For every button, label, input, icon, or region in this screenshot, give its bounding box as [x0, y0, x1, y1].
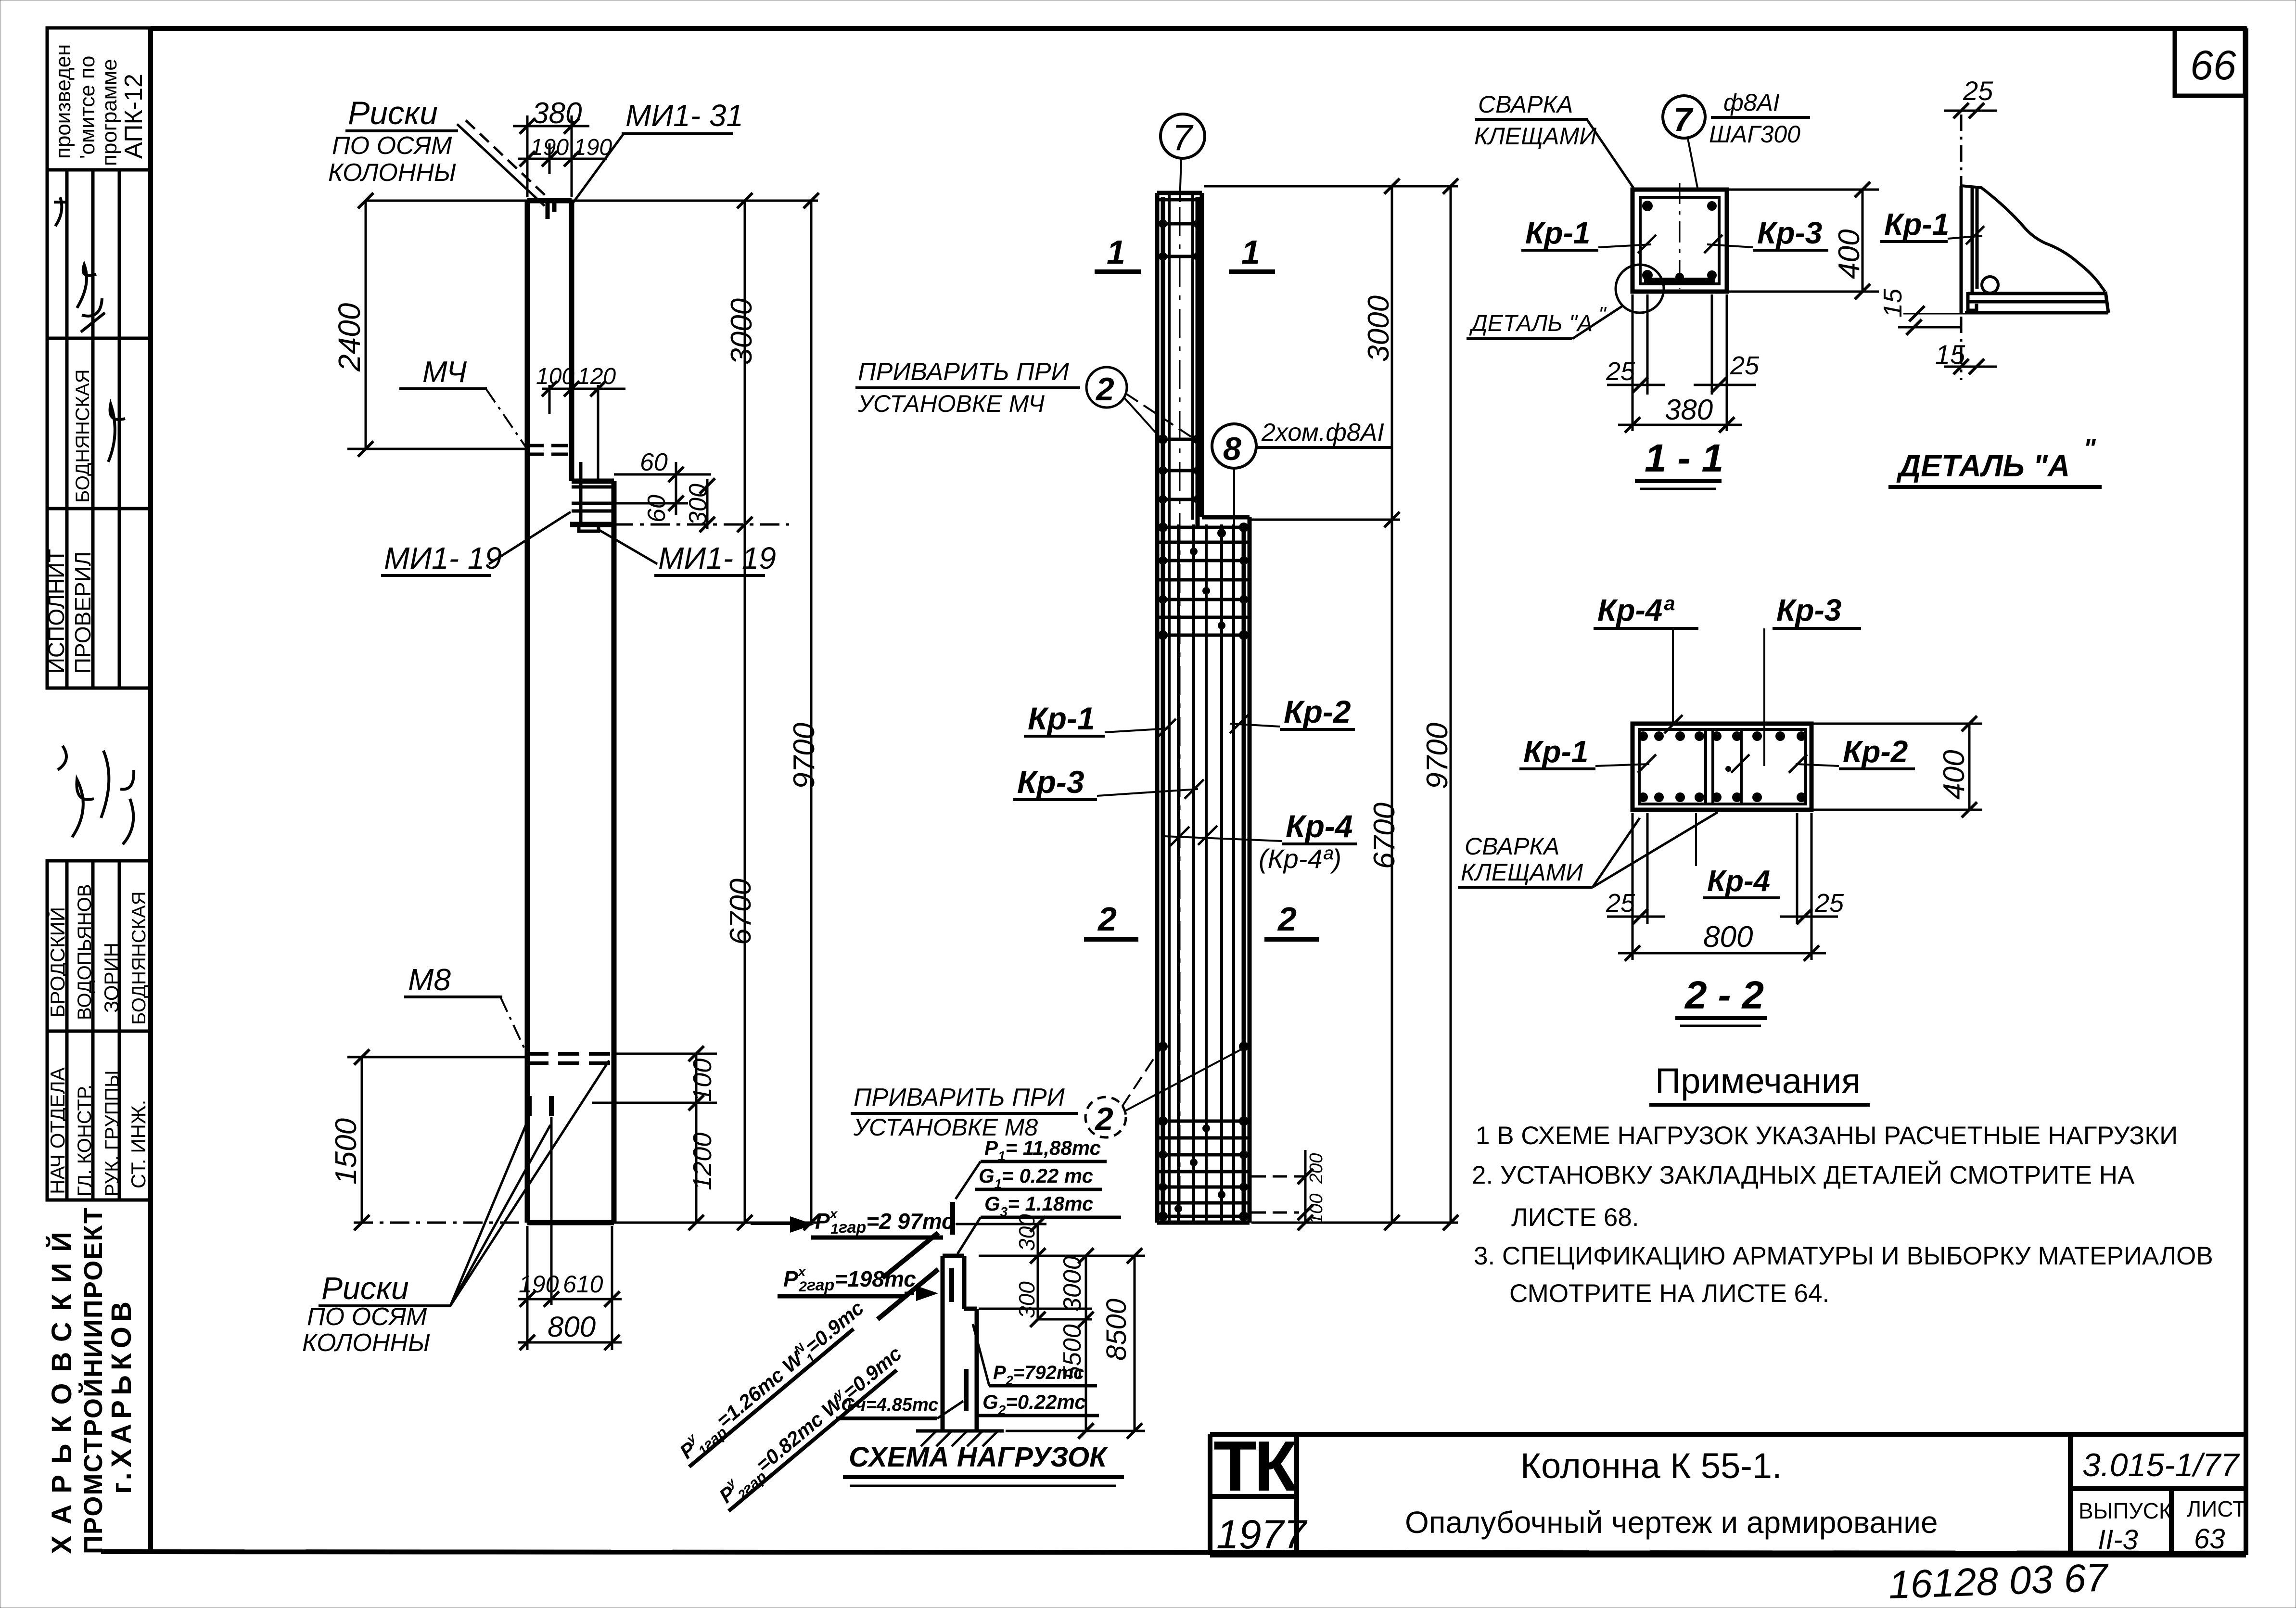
- svg-text:Примечания: Примечания: [1655, 1061, 1861, 1101]
- svg-text:1 - 1: 1 - 1: [1645, 436, 1723, 480]
- narrow cage stirrups (top group): [1157, 200, 1202, 499]
- section body: outer concrete square: [1633, 190, 1727, 292]
- svg-text:400: 400: [1938, 750, 1971, 800]
- svg-text:15: 15: [1878, 288, 1907, 318]
- P1gar horizontal force arrow: [751, 1222, 793, 1225]
- svg-text:25: 25: [1814, 889, 1844, 918]
- svg-text:РУК. ГРУППЫ: РУК. ГРУППЫ: [102, 1070, 123, 1197]
- bottom riska marks: [529, 1096, 551, 1116]
- dims of load scheme: [956, 1224, 1145, 1431]
- right dims 3000 / 6700 / 9700: [1204, 186, 1458, 1223]
- svg-text:1500: 1500: [330, 1118, 363, 1185]
- section mark 1-1: [1095, 269, 1141, 274]
- svg-text:Кр-4: Кр-4: [1707, 865, 1770, 898]
- svg-text:АПК-12: АПК-12: [120, 74, 148, 159]
- dim 400 right: [1813, 724, 1982, 810]
- svg-text:6700: 6700: [1368, 803, 1401, 869]
- svg-text:3.015-1/77: 3.015-1/77: [2082, 1447, 2240, 1483]
- svg-text:ДЕТАЛЬ "А: ДЕТАЛЬ "А: [1469, 311, 1593, 336]
- bottom dims 190/610/800: [518, 1117, 622, 1350]
- diagonal label 1: [671, 1294, 872, 1470]
- svg-text:НАЧ ОТДЕЛА: НАЧ ОТДЕЛА: [46, 1067, 69, 1194]
- sheet number box 66: [2175, 28, 2245, 96]
- svg-text:ПРИВАРИТЬ ПРИ: ПРИВАРИТЬ ПРИ: [858, 358, 1070, 386]
- svg-text:7: 7: [1673, 101, 1694, 138]
- embedded plate: [1965, 292, 2108, 313]
- svg-text:г.ХАРЬКОВ: г.ХАРЬКОВ: [106, 1302, 137, 1494]
- svg-text:ф8АІ: ф8АІ: [1723, 89, 1780, 116]
- svg-text:Риски: Риски: [348, 95, 438, 131]
- svg-text:ПРОМСТРОЙНИИПРОЕКТ: ПРОМСТРОЙНИИПРОЕКТ: [78, 1208, 108, 1554]
- svg-text:Кр-1: Кр-1: [1525, 216, 1590, 250]
- rebar dots: [1642, 201, 1717, 281]
- svg-text:3000: 3000: [725, 298, 758, 365]
- dims 25 / 380 below: [1607, 294, 1756, 431]
- svg-text:G1= 0.22 тс: G1= 0.22 тс: [979, 1164, 1093, 1191]
- svg-text:8: 8: [1223, 431, 1241, 467]
- top centre riska marks: [548, 201, 554, 219]
- svg-text:ЛИСТЕ 68.: ЛИСТЕ 68.: [1511, 1203, 1639, 1232]
- svg-text:25: 25: [1730, 351, 1760, 380]
- dim 3000 / 6700 / 9700: [572, 201, 818, 1223]
- svg-text:Кр-3: Кр-3: [1776, 593, 1841, 627]
- svg-text:ИСПОЛНИТ: ИСПОЛНИТ: [44, 549, 69, 674]
- svg-text:Кр-3: Кр-3: [1757, 216, 1822, 250]
- narrow cage outline & bars: [1157, 193, 1202, 1223]
- svg-text:СМОТРИТЕ НА ЛИСТЕ 64.: СМОТРИТЕ НА ЛИСТЕ 64.: [1509, 1279, 1829, 1308]
- svg-text:800: 800: [1703, 920, 1753, 954]
- svg-text:ДЕТАЛЬ "А: ДЕТАЛЬ "А: [1896, 448, 2070, 483]
- dim 100 / 1200 right of column foot: [592, 1054, 717, 1223]
- svg-text:300: 300: [1014, 1281, 1039, 1318]
- dim 1500: [347, 1057, 526, 1223]
- svg-text:6700: 6700: [724, 879, 757, 945]
- left margin stamp strip: [47, 28, 151, 1200]
- svg-text:66: 66: [2190, 42, 2236, 89]
- svg-text:ХАРЬКОВСКИЙ: ХАРЬКОВСКИЙ: [46, 1232, 77, 1554]
- MCh embedded plate (dashed): [527, 446, 575, 454]
- svg-text:3000: 3000: [1362, 295, 1395, 362]
- svg-text:300: 300: [1014, 1214, 1039, 1251]
- centre axes: [1679, 183, 1681, 289]
- detail A callout circle: [1616, 265, 1664, 313]
- svg-text:3000: 3000: [1059, 1256, 1086, 1312]
- svg-text:Риски: Риски: [321, 1270, 409, 1306]
- svg-text:ШАГ300: ШАГ300: [1709, 121, 1800, 148]
- callout 7: f8AI shag300: [1663, 96, 1705, 138]
- svg-text:7: 7: [1172, 117, 1194, 158]
- signature squiggles: [54, 197, 134, 844]
- organization name (rotated): [46, 1208, 137, 1554]
- top lap-splice mesh: [1157, 527, 1250, 635]
- svg-text:2: 2: [1095, 371, 1114, 408]
- M8 embedded plate (dashed): [527, 1054, 614, 1063]
- dim 2400 left: [347, 201, 527, 449]
- svg-text:120: 120: [577, 364, 616, 389]
- svg-text:200: 200: [1306, 1153, 1327, 1184]
- stirrup: [1640, 197, 1719, 284]
- svg-text:Кр-2: Кр-2: [1843, 734, 1908, 769]
- axis mark: circled 7: [1161, 114, 1205, 158]
- svg-text:Кр-1: Кр-1: [1523, 734, 1588, 769]
- svg-text:G2=0.22тс: G2=0.22тс: [982, 1391, 1086, 1417]
- svg-text:400: 400: [1833, 230, 1866, 279]
- svg-text:ЛИСТ: ЛИСТ: [2187, 1496, 2246, 1521]
- svg-text:2 - 2: 2 - 2: [1684, 973, 1764, 1017]
- widening step: [1202, 515, 1250, 520]
- svg-text:380: 380: [532, 97, 582, 130]
- svg-text:60: 60: [640, 448, 668, 476]
- svg-text:25: 25: [1606, 357, 1635, 386]
- svg-text:25: 25: [1963, 76, 1993, 106]
- svg-text:КОЛОННЫ: КОЛОННЫ: [302, 1329, 430, 1357]
- svg-text:МИ1- 31: МИ1- 31: [625, 98, 743, 133]
- svg-text:БОДНЯНСКАЯ: БОДНЯНСКАЯ: [128, 891, 150, 1025]
- svg-text:ВЫПУСК: ВЫПУСК: [2079, 1498, 2172, 1523]
- svg-text:1977: 1977: [1216, 1512, 1308, 1557]
- svg-text:БРОДСКИЙ: БРОДСКИЙ: [46, 907, 69, 1018]
- svg-text:25: 25: [1606, 889, 1635, 918]
- svg-text:Колонна К 55-1.: Колонна К 55-1.: [1520, 1446, 1782, 1486]
- svg-text:ГЛ. КОНСТР.: ГЛ. КОНСТР.: [74, 1085, 95, 1197]
- svg-text:2хом.ф8АІ: 2хом.ф8АІ: [1261, 419, 1384, 447]
- svg-text:3. СПЕЦИФИКАЦИЮ АРМАТУРЫ И ВЫБ: 3. СПЕЦИФИКАЦИЮ АРМАТУРЫ И ВЫБОРКУ МАТЕР…: [1474, 1242, 2213, 1270]
- svg-text:УСТАНОВКЕ МЧ: УСТАНОВКЕ МЧ: [857, 390, 1045, 417]
- svg-text:16128 03 67: 16128 03 67: [1888, 1556, 2110, 1607]
- column profile sketch: [943, 1256, 977, 1431]
- svg-text:": ": [2083, 434, 2096, 463]
- svg-text:КЛЕЩАМИ: КЛЕЩАМИ: [1474, 123, 1596, 150]
- svg-text:Кр-1: Кр-1: [1884, 207, 1949, 242]
- svg-text:Кр-1: Кр-1: [1028, 701, 1095, 736]
- svg-text:ПРИВАРИТЬ ПРИ: ПРИВАРИТЬ ПРИ: [854, 1084, 1065, 1111]
- svg-text:190: 190: [519, 1271, 559, 1298]
- wide cage outline & bars: [1157, 517, 1250, 1223]
- svg-text:Кр-3: Кр-3: [1017, 764, 1084, 800]
- svg-text:60: 60: [643, 495, 671, 523]
- svg-text:8500: 8500: [1101, 1299, 1132, 1361]
- svg-text:2400: 2400: [332, 303, 367, 372]
- svg-text:2. УСТАНОВКУ ЗАКЛАДНЫХ ДЕТАЛЕЙ: 2. УСТАНОВКУ ЗАКЛАДНЫХ ДЕТАЛЕЙ СМОТРИТЕ …: [1472, 1160, 2135, 1189]
- svg-text:300: 300: [684, 484, 712, 525]
- svg-text:100: 100: [688, 1059, 717, 1102]
- torn concrete break line: [1961, 186, 2105, 292]
- svg-text:Gч=4.85тс: Gч=4.85тс: [841, 1395, 938, 1415]
- dim 380 over column top: [513, 115, 607, 197]
- rebar dots: [1638, 731, 1806, 802]
- svg-text:800: 800: [548, 1311, 596, 1343]
- svg-text:9700: 9700: [1421, 723, 1454, 789]
- svg-text:5500: 5500: [1059, 1324, 1086, 1380]
- svg-text:Кр-2: Кр-2: [1284, 694, 1351, 729]
- dim 100 120 at corbel: [542, 385, 625, 481]
- svg-text:100: 100: [1306, 1194, 1327, 1224]
- wind diagonal strokes: [882, 1233, 938, 1278]
- svg-text:100: 100: [536, 364, 574, 389]
- corbel embed MI1-19 plate: [572, 462, 614, 531]
- svg-text:Кр-4ª: Кр-4ª: [1597, 593, 1674, 627]
- column edge and bar: [1961, 186, 1977, 314]
- svg-text:КОЛОННЫ: КОЛОННЫ: [328, 159, 456, 187]
- svg-text:(Кр-4ª): (Кр-4ª): [1259, 843, 1341, 874]
- load application point marks: [952, 1202, 966, 1411]
- svg-text:1: 1: [1107, 233, 1125, 271]
- section mark 2-2: [1084, 937, 1138, 942]
- svg-text:ВОДОПЬЯНОВ: ВОДОПЬЯНОВ: [74, 884, 95, 1020]
- svg-text:МИ1- 19: МИ1- 19: [384, 541, 502, 575]
- svg-text:ЗОРИН: ЗОРИН: [100, 943, 123, 1013]
- small dims 100 / 200 at cage foot: [1251, 1150, 1305, 1223]
- svg-text:ПО ОСЯМ: ПО ОСЯМ: [332, 132, 452, 160]
- stamp strip rotated texts: [44, 44, 150, 1197]
- svg-text:9700: 9700: [788, 723, 821, 789]
- diagonal label 2: [711, 1340, 910, 1514]
- svg-text:Опалубочный чертеж и армирова: Опалубочный чертеж и армирование: [1405, 1505, 1938, 1540]
- svg-text:2: 2: [1097, 900, 1117, 938]
- callout 8: 2 hom f8AI: [1212, 424, 1256, 468]
- svg-text:2: 2: [1277, 900, 1297, 938]
- svg-text:63: 63: [2194, 1523, 2225, 1555]
- svg-text:": ": [1598, 303, 1607, 326]
- svg-text:II-3: II-3: [2098, 1524, 2138, 1556]
- svg-text:СТ. ИНЖ.: СТ. ИНЖ.: [127, 1100, 150, 1188]
- svg-text:М8: М8: [408, 962, 451, 997]
- svg-text:произведен: произведен: [51, 44, 75, 159]
- svg-text:1: 1: [1241, 233, 1260, 271]
- svg-text:1 В СХЕМЕ НАГРУЗОК УКАЗАНЫ РА: 1 В СХЕМЕ НАГРУЗОК УКАЗАНЫ РАСЧЕТНЫЕ НАГ…: [1476, 1122, 2178, 1150]
- svg-text:программе: программе: [98, 59, 121, 166]
- stirrups: [1639, 729, 1741, 804]
- dims 25 / 25 / 800 below: [1607, 813, 1838, 960]
- svg-text:СВАРКА: СВАРКА: [1465, 833, 1559, 860]
- svg-text:Кр-4: Кр-4: [1286, 808, 1353, 844]
- dim 400 right: [1729, 190, 1879, 292]
- svg-text:380: 380: [1665, 394, 1713, 426]
- bottom lap-splice mesh: [1157, 1121, 1250, 1216]
- svg-text:1200: 1200: [688, 1133, 717, 1190]
- svg-text:Px1гар=2 97тс: Px1гар=2 97тс: [815, 1206, 954, 1237]
- svg-text:СВАРКА: СВАРКА: [1478, 91, 1573, 118]
- svg-text:2: 2: [1094, 1101, 1113, 1137]
- ground line with hatch: [916, 1429, 1004, 1433]
- svg-text:'омитсе по: 'омитсе по: [76, 56, 99, 159]
- cage centre axis: [1179, 207, 1181, 1220]
- svg-text:190: 190: [530, 135, 569, 160]
- svg-text:15: 15: [1935, 339, 1965, 370]
- anchor bar circle: [1982, 277, 1998, 293]
- svg-text:МИ1- 19: МИ1- 19: [658, 541, 776, 575]
- svg-text:СХЕМА НАГРУЗОК: СХЕМА НАГРУЗОК: [849, 1442, 1108, 1473]
- svg-text:ТК: ТК: [1213, 1427, 1298, 1506]
- svg-text:ПРОВЕРИЛ: ПРОВЕРИЛ: [70, 551, 95, 674]
- svg-text:МЧ: МЧ: [422, 356, 467, 389]
- svg-text:БОДНЯНСКАЯ: БОДНЯНСКАЯ: [72, 369, 93, 503]
- svg-text:КЛЕЩАМИ: КЛЕЩАМИ: [1461, 859, 1583, 886]
- column outline: [527, 201, 614, 1223]
- section body: outer rectangle: [1633, 724, 1811, 810]
- corbel 60/60/300 dims: [614, 462, 789, 529]
- svg-text:610: 610: [563, 1271, 603, 1298]
